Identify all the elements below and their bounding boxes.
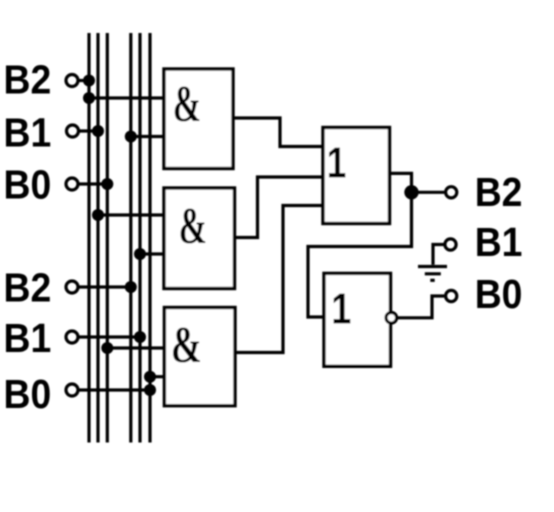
svg-text:B0: B0 [4,163,52,208]
wire terminal B2 bottom to bus [79,285,131,288]
svg-text:B2: B2 [475,170,523,215]
OR gate U1 box [323,128,390,224]
svg-text:1: 1 [331,284,351,333]
svg-text:B0: B0 [475,272,523,317]
svg-text:&: & [171,316,202,373]
junction dot on line 5 at y=254 [134,248,146,260]
wire terminal B1 bottom to bus [79,335,140,338]
wire branch line3 to AND gate D3 input 1 [107,346,164,349]
wire branch line1 to AND gate D1 input 1 [89,96,164,99]
junction dot node B2 bottom on line 4 [125,281,137,293]
svg-text:1: 1 [327,139,347,188]
wire bus line 3 (input B0 high group) [106,33,109,443]
input terminal B2 (top) [66,75,78,87]
junction dot on line 6 at y=376.7 [144,371,156,383]
AND gate D1 box [164,69,233,169]
svg-text:&: & [173,76,201,133]
wire AND D1 output to OR U1 input 1 [233,118,323,147]
inverter bubble on OR U2 output [386,313,397,324]
junction dot on line 1 at y=98 [83,92,95,104]
wire node to output terminal B2 [412,191,445,194]
wire AND D3 output to OR U1 input 3 [235,206,323,353]
wire branch line2 to AND gate D2 input 1 [98,213,164,216]
junction dot on line 3 at y=348 [101,342,113,354]
svg-text:B1: B1 [475,220,523,265]
wire terminal B0 bottom to bus [79,388,150,391]
junction dot on line 4 at y=136.5 [125,131,137,143]
svg-text:B2: B2 [4,266,52,311]
junction dot node B0 bottom on line 6 [144,384,156,396]
wire terminal B0 top to bus [79,182,108,185]
input terminal B0 (bottom) [66,384,78,396]
wire bus line 6 (input B0 low group) [148,33,151,443]
wire bus line 5 (input B1 low group) [138,33,141,443]
svg-text:&: & [179,198,207,255]
input terminal B0 (top) [66,178,78,190]
wire OR U1 output to node B2 and feedback to OR U2 input [308,173,412,317]
ground symbol bar 3 [430,279,434,282]
input terminal B1 (bottom) [66,331,78,343]
wire bus line 2 (input B1 high group) [96,33,99,443]
input terminal B2 (bottom) [66,281,78,293]
wire terminal B2 top to bus [79,79,89,82]
wire branch line6 to AND gate D3 input 2 [150,375,164,378]
ground symbol bar 1 [418,265,447,268]
output terminal B0 [446,290,457,301]
AND gate D3 box [164,308,235,406]
wire bus line 4 (input B2 low group) [129,33,132,443]
wire branch line5 to AND gate D2 input 2 [140,252,164,255]
output terminal B1 [445,239,456,250]
svg-text:B2: B2 [4,58,52,103]
output terminal B2 [446,187,457,198]
junction dot node B1 top on line 2 [92,125,104,137]
input terminal B1 (top) [67,125,79,137]
svg-text:B1: B1 [4,316,52,361]
wire AND D2 output to OR U1 input 2 [235,177,324,238]
junction dot node B2 top on line 1 [83,75,95,87]
svg-text:B1: B1 [4,111,52,156]
junction dot node B0 top on line 3 [101,178,113,190]
AND gate D2 box [164,188,235,289]
junction dot node B1 bottom on line 5 [134,331,146,343]
ground symbol bar 2 [425,272,441,275]
svg-text:B0: B0 [4,372,52,417]
junction dot node B2 output [404,185,418,199]
wire bus line 1 (input B2 high group) [87,33,90,443]
wire output terminal B1 to ground [433,245,444,265]
wire terminal B1 top to bus [79,129,98,132]
OR gate U2 box [324,273,391,366]
junction dot on line 2 at y=215 [92,209,104,221]
wire OR U2 output to output terminal B0 [398,296,444,318]
wire branch line4 to AND gate D1 input 2 [131,135,164,138]
